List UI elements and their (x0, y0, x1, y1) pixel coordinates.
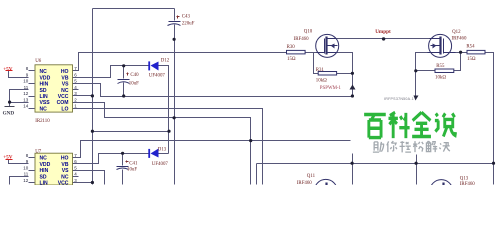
power port GND (3, 107, 15, 117)
wire U7 HO chain to right (73, 141, 351, 158)
char Shuo (435, 113, 456, 136)
diode D12 UF4007 (148, 58, 169, 78)
resistor R55 10kohm (435, 64, 454, 81)
power port +5V (U6) (3, 66, 13, 72)
char Jie (426, 141, 437, 152)
svg-text:+5V: +5V (3, 66, 13, 72)
wire C43 top lead (174, 9, 176, 21)
capacitor C43 220uF polarized (168, 14, 195, 26)
resistor R54 15ohm (466, 45, 485, 62)
wire U7 LIN stub (29, 182, 35, 184)
svg-text:Q13: Q13 (460, 176, 469, 181)
svg-text:C40: C40 (130, 73, 139, 78)
svg-text:VDD: VDD (40, 75, 51, 81)
char Ke (388, 112, 409, 138)
svg-text:HIN: HIN (40, 82, 49, 88)
wire U6 COM chain (73, 103, 251, 185)
svg-text:COM: COM (57, 100, 69, 106)
wire R54 right down right edge (485, 53, 494, 185)
svg-text:IRF460: IRF460 (452, 36, 468, 41)
svg-text:NC: NC (40, 156, 48, 162)
IC U6 IR2110 (23, 59, 77, 124)
wire R31 right to source vertical (337, 73, 353, 75)
svg-text:VDD: VDD (40, 162, 51, 168)
wire U6 HO to gate resistor R30 (73, 53, 287, 71)
wire U6 VSS to GND (10, 102, 29, 104)
wire Umppt drain bus (336, 38, 430, 40)
svg-text:C43: C43 (182, 14, 191, 19)
wire bottom bus left drop (256, 164, 258, 185)
diode D13 UF4007 (148, 147, 168, 167)
watermark slogan: small gray characters (hand-drawn strokes) (373, 141, 450, 152)
svg-text:HO: HO (61, 156, 69, 162)
svg-text:UF4007: UF4007 (152, 162, 169, 167)
svg-text:R31: R31 (316, 68, 325, 73)
wire U7 SD down (10, 177, 29, 185)
wire U6 VB to D12 cathode (73, 66, 150, 78)
wire Q10 source down (338, 53, 353, 97)
wire lower vertical x=352 (352, 154, 354, 185)
svg-text:Q10: Q10 (304, 30, 313, 35)
svg-text:U6: U6 (35, 59, 42, 64)
svg-text:IRF460: IRF460 (297, 181, 313, 185)
wire D12 anode rail down to D13 anode (159, 66, 169, 154)
svg-text:C41: C41 (129, 161, 138, 166)
wire C40 top lead (123, 66, 125, 79)
svg-text:10: 10 (23, 79, 29, 84)
char Qing (400, 141, 412, 152)
svg-text:15Ω: 15Ω (467, 57, 476, 62)
wire U6 HIN stub (29, 83, 35, 85)
capacitor C41 10uF polarized (117, 161, 139, 173)
svg-text:SD: SD (40, 174, 47, 180)
svg-text:VS: VS (62, 82, 69, 88)
svg-text:NC: NC (40, 106, 48, 112)
svg-text:14: 14 (23, 104, 29, 109)
wire R30 to Q10 gate (306, 52, 325, 54)
svg-text:R30: R30 (287, 45, 296, 50)
char Ni (387, 141, 397, 152)
wire U6 NC pin4 stub (73, 89, 79, 91)
svg-text:SD: SD (40, 88, 47, 94)
wire C41 bottom lead (122, 170, 124, 185)
svg-text:VB: VB (61, 75, 68, 81)
wire U6 LO chain (73, 109, 263, 185)
svg-text:IRF460: IRF460 (294, 37, 310, 42)
svg-text:11: 11 (24, 85, 29, 90)
wire U6 SD to GND (10, 90, 29, 107)
wire Q12 source down to arrow (416, 53, 428, 96)
wire U7 VB to D13 cathode (73, 154, 150, 164)
watermark logo: big green characters (hand-drawn strokes) (364, 112, 455, 138)
IC U7 IR2110 (clipped at bottom) (23, 149, 77, 186)
wire Q10 gate drop to R31 (314, 53, 319, 74)
char Quan (412, 112, 431, 136)
svg-text:VB: VB (61, 162, 68, 168)
svg-text:U7: U7 (35, 149, 42, 154)
svg-text:R55: R55 (436, 64, 445, 69)
svg-text:NC: NC (40, 69, 48, 75)
svg-text:12: 12 (23, 91, 29, 96)
svg-text:10kΩ: 10kΩ (435, 76, 446, 81)
svg-text:NC: NC (61, 174, 69, 180)
wire top loop from VCC rail to C43 (93, 8, 175, 10)
wire U7 left NC stub (29, 157, 35, 159)
svg-text:NC: NC (61, 88, 69, 94)
wire C40 bottom lead (123, 83, 125, 97)
svg-text:R54: R54 (466, 45, 475, 50)
svg-text:VSS: VSS (40, 100, 51, 106)
net port arrow down (Q12 source) with tiny label (384, 96, 419, 102)
wire VCC rail tap to diode anode rail (93, 131, 169, 133)
svg-text:IRF460: IRF460 (460, 182, 476, 185)
svg-text:10uF: 10uF (129, 81, 139, 86)
wire D13 anode (159, 153, 169, 155)
svg-text:15Ω: 15Ω (287, 57, 296, 62)
svg-text:13: 13 (23, 97, 29, 102)
wire U7 VS down (73, 171, 105, 185)
wire VCC rail vertical x=92.4 (92, 9, 94, 185)
svg-text:12: 12 (23, 178, 29, 183)
svg-text:220uF: 220uF (182, 21, 195, 26)
wire U6 NC stub pin14 (29, 108, 35, 110)
wire U6 VCC to rail (73, 95, 93, 97)
svg-text:10kΩ: 10kΩ (316, 79, 327, 84)
char Zhu (373, 142, 384, 152)
wire +5V to U7 VDD (9, 160, 29, 164)
wire C43 bottom lead rail to bottom (174, 25, 176, 185)
resistor R31 10kohm (316, 68, 337, 83)
mosfet Q13 IRF460 (clipped at bottom) (430, 180, 453, 203)
svg-text:LO: LO (61, 106, 68, 112)
svg-text:PSPWM-1: PSPWM-1 (320, 86, 342, 91)
svg-text:10: 10 (23, 165, 29, 170)
svg-text:Q12: Q12 (452, 30, 461, 35)
svg-text:Q11: Q11 (307, 174, 316, 179)
svg-text:GND: GND (3, 111, 15, 117)
wire U6 left NC stub pin8 (29, 70, 35, 72)
svg-text:LIN: LIN (40, 181, 49, 185)
wire Q12 gate to R54 (456, 52, 467, 54)
svg-text:D13: D13 (158, 147, 167, 152)
svg-text:UF4007: UF4007 (149, 74, 166, 79)
power port +5V (U7) (3, 155, 13, 161)
wire bottom bus (257, 163, 494, 165)
wire U7 VCC to rail (73, 182, 93, 184)
wire +5V to U6 VDD (9, 71, 29, 78)
wire U6 LIN stub (29, 96, 35, 98)
wire U7 HIN stub (29, 170, 35, 172)
svg-text:VCC: VCC (58, 94, 69, 100)
svg-text:VCC: VCC (58, 181, 69, 185)
wire U7 NC stub (73, 176, 79, 178)
svg-text:IR2110: IR2110 (35, 119, 50, 124)
svg-text:VS: VS (62, 168, 69, 174)
svg-text:Umppt: Umppt (375, 29, 391, 35)
capacitor C40 10uF polarized (118, 73, 140, 87)
net port PSPWM-1 with up arrow (320, 85, 356, 91)
svg-text:HO: HO (61, 69, 69, 75)
wire C41 top lead (122, 154, 124, 166)
svg-text:HIN: HIN (40, 168, 49, 174)
resistor R30 15ohm (287, 45, 306, 62)
svg-text:D12: D12 (161, 58, 170, 63)
svg-text:LIN: LIN (40, 94, 49, 100)
mosfet Q11 IRF460 (clipped at bottom) (314, 179, 337, 202)
mosfet Q12 IRF460 (mirrored) (428, 34, 456, 57)
wire R55 right up to gate (454, 53, 461, 71)
svg-text:11: 11 (24, 172, 29, 177)
wire R55 left (416, 70, 435, 72)
svg-text:10uF: 10uF (127, 168, 137, 173)
char Song (413, 141, 423, 152)
svg-text:IRFPS37N50A-1: IRFPS37N50A-1 (384, 97, 414, 101)
wire lower vertical x=416 (416, 155, 418, 185)
char Jue (439, 143, 450, 152)
char Bai (364, 115, 386, 138)
wire U6 VS to source bus y=96 (73, 84, 353, 97)
mosfet Q10 IRF460 (316, 34, 339, 57)
